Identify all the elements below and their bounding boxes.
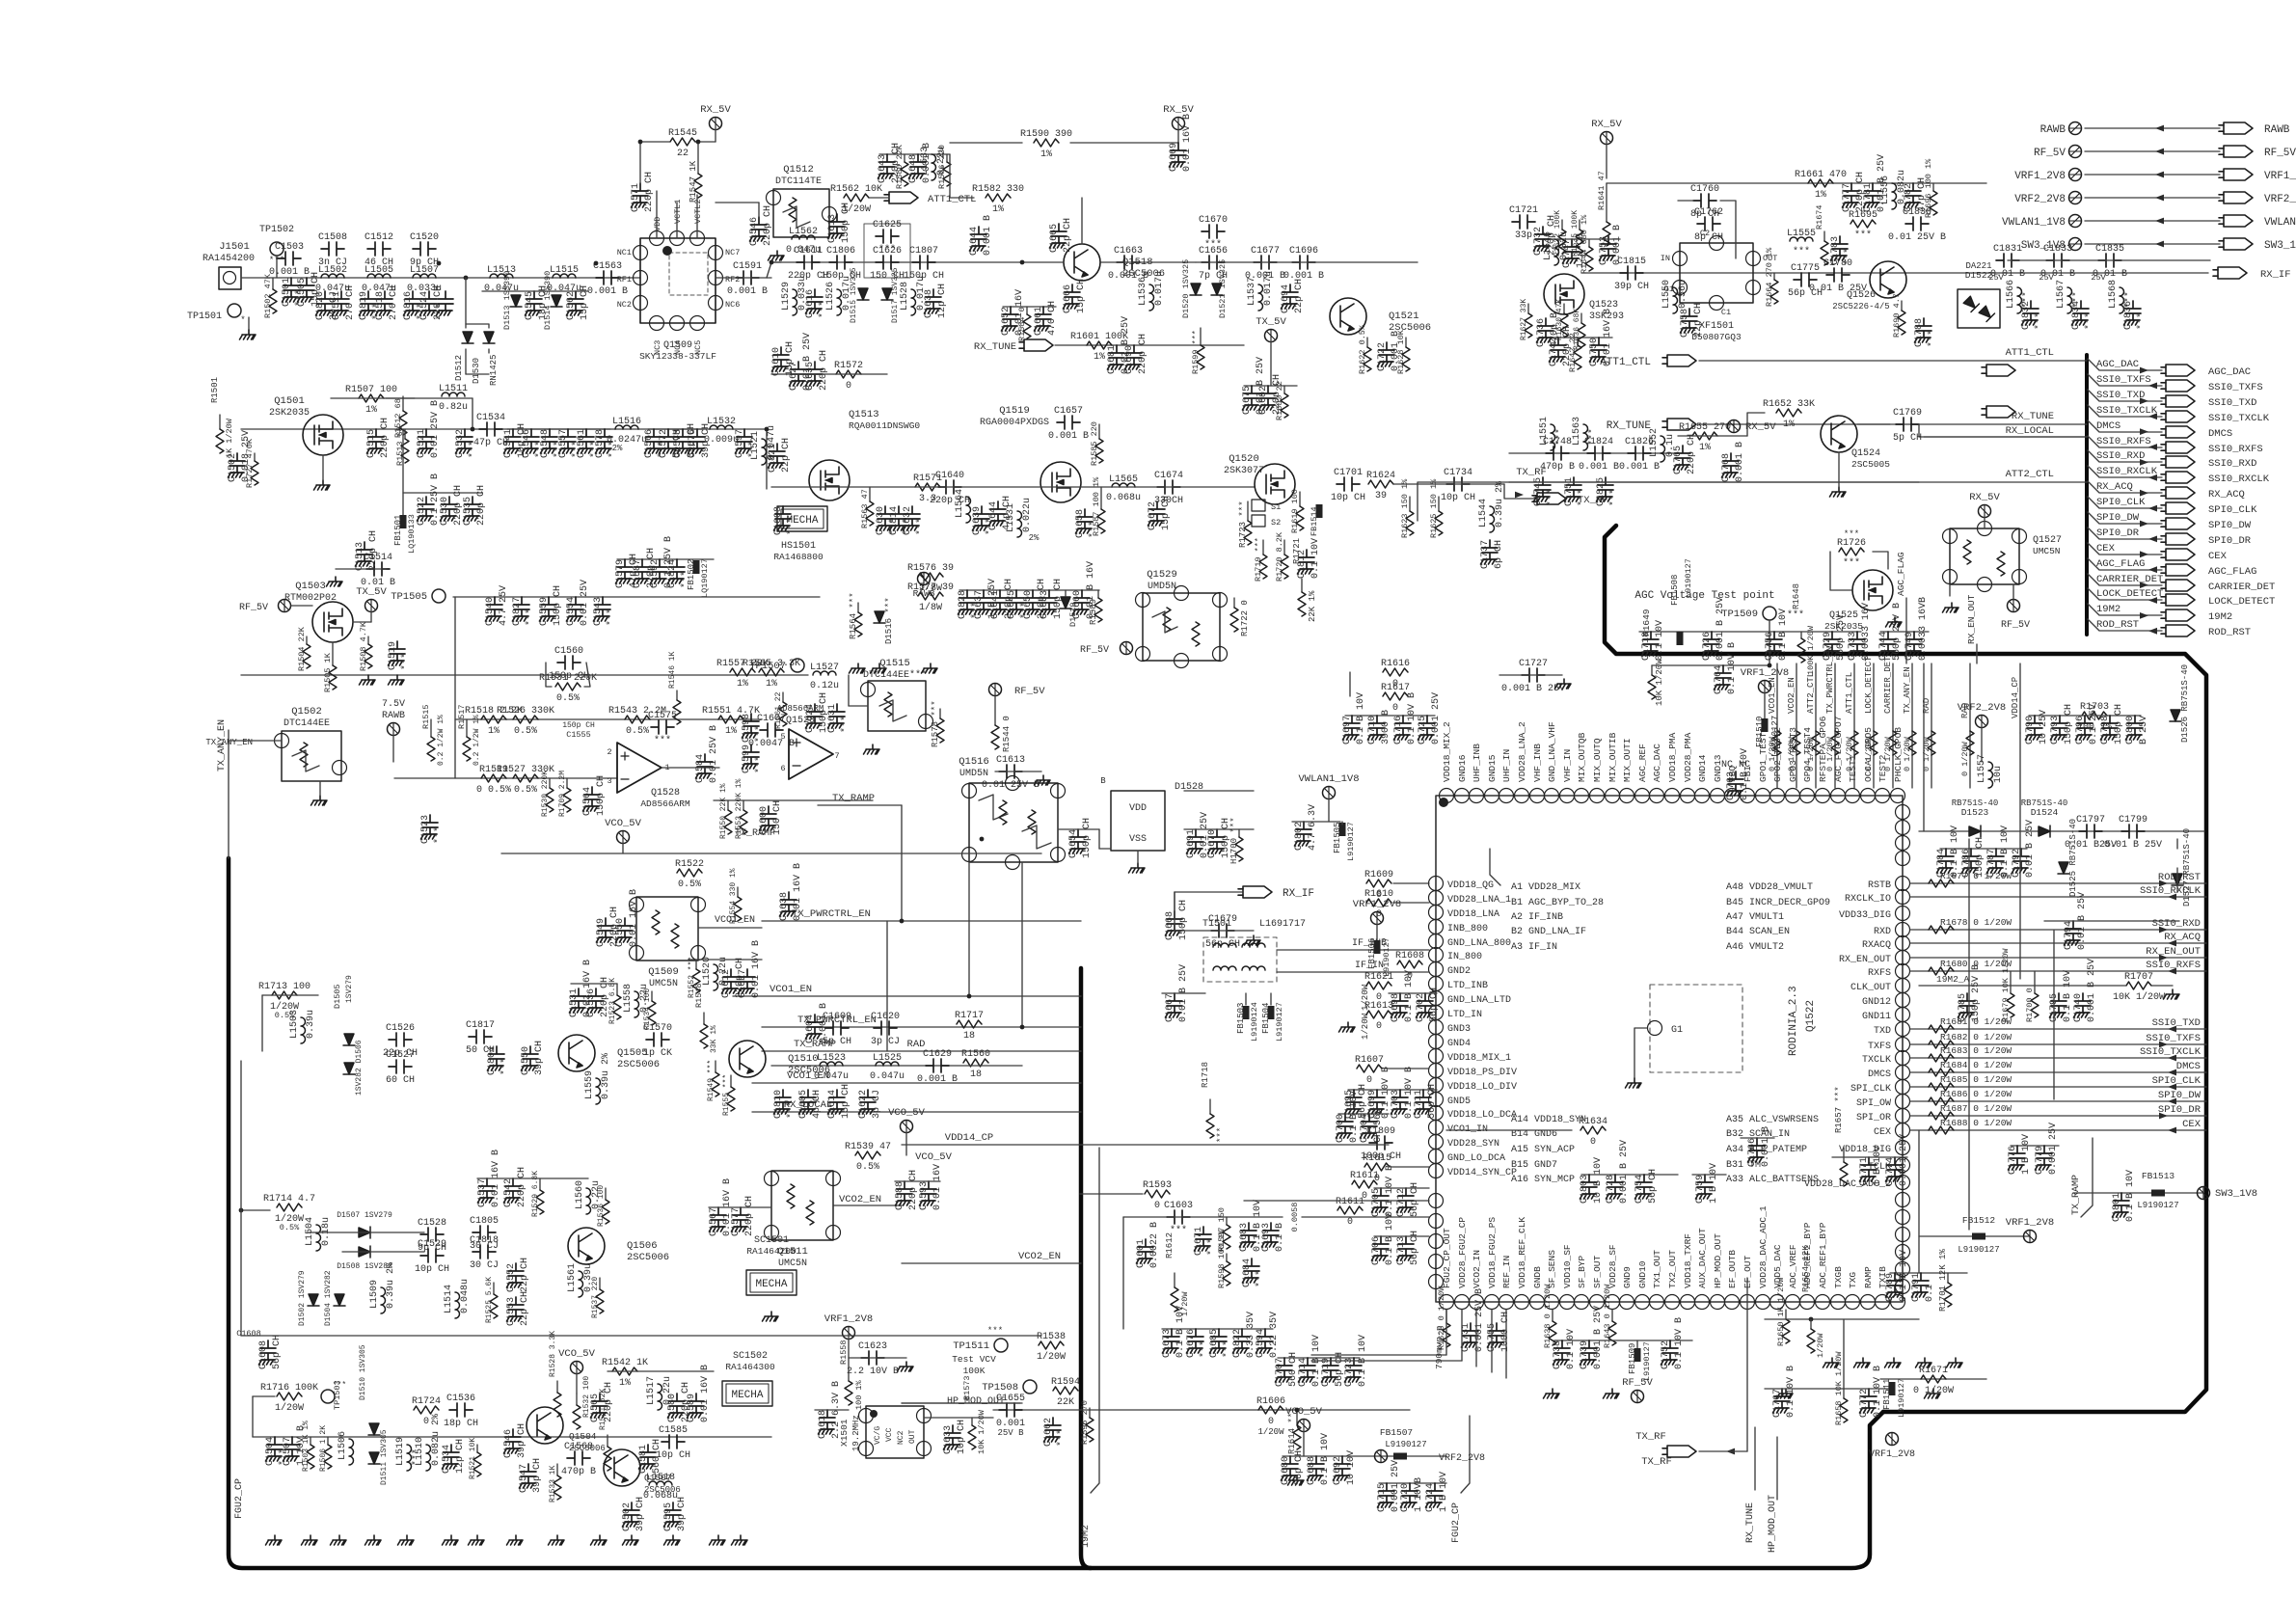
svg-text:C1536: C1536 (586, 988, 597, 1017)
caps L1528 C1638b (911, 289, 916, 315)
svg-text:R1630 47K: R1630 47K (1555, 299, 1564, 340)
resistors R1543 R1546 R1551 + C1598 (625, 716, 650, 723)
svg-text:GND16: GND16 (1457, 754, 1468, 782)
svg-text:22: 22 (677, 149, 689, 159)
svg-text:C1568: C1568 (564, 1442, 593, 1452)
svg-text:TP1509: TP1509 (1721, 609, 1758, 620)
resistor wire / net RX_ACQ (1910, 942, 2206, 944)
svg-text:R1596 270: R1596 270 (1080, 1400, 1090, 1445)
svg-text:R1526 330K: R1526 330K (497, 706, 554, 717)
svg-text:DTC144EE: DTC144EE (284, 718, 330, 729)
svg-text:0.001 B: 0.001 B (269, 267, 310, 278)
svg-text:R1683 0 1/20W: R1683 0 1/20W (1940, 1045, 2012, 1056)
svg-text:C1744: C1744 (1878, 632, 1889, 661)
svg-text:R1506 1.2K: R1506 1.2K (319, 1425, 328, 1472)
svg-text:AGC_DAC: AGC_DAC (2096, 359, 2139, 370)
svg-text:C1802: C1802 (1294, 822, 1305, 851)
main RX wire y=288 (241, 277, 640, 279)
svg-text:56p CH: 56p CH (1427, 1084, 1438, 1119)
svg-text:L1520: L1520 (702, 957, 713, 986)
output LC chain C1833 L1567 C1834 (2046, 254, 2069, 267)
svg-text:C1713: C1713 (1396, 1236, 1407, 1265)
caps C1776 C1779 (2011, 1145, 2059, 1147)
svg-text:R1529 6.8K: R1529 6.8K (531, 1171, 540, 1217)
svg-text:R1555 ***: R1555 *** (722, 1074, 731, 1116)
caps C1624 C1631 (806, 704, 824, 728)
svg-text:L1536: L1536 (1138, 277, 1148, 306)
svg-text:D1505: D1505 (333, 984, 342, 1009)
svg-text:1/20W: 1/20W (1816, 1333, 1825, 1358)
resistors R1576 R1577 1/8W (918, 573, 943, 581)
svg-text:R1580 22K: R1580 22K (895, 144, 905, 189)
svg-text:SPI0_DR: SPI0_DR (2096, 528, 2140, 539)
svg-text:19M2: 19M2 (2208, 611, 2232, 623)
svg-text:0.068u: 0.068u (643, 1491, 678, 1502)
svg-text:VDD28_LNA_1: VDD28_LNA_1 (1447, 895, 1511, 906)
svg-text:C1503: C1503 (275, 242, 304, 253)
main RX_IF wire y=283 (1581, 272, 2208, 274)
caps C1502b C1595 (623, 1502, 640, 1527)
svg-text:C1666: C1666 (1063, 284, 1073, 313)
svg-text:790mvp-p: 790mvp-p (1434, 1325, 1445, 1369)
svg-text:R1722 0: R1722 0 (1240, 600, 1250, 636)
svg-text:L1525: L1525 (873, 1053, 902, 1064)
svg-text:150p CH: 150p CH (1082, 818, 1093, 858)
svg-text:***: *** (1793, 246, 1810, 257)
svg-text:0 1/20W: 0 1/20W (1825, 736, 1835, 771)
svg-text:TXGB: TXGB (1833, 1266, 1844, 1288)
svg-text:VDD28_FGU2_CP: VDD28_FGU2_CP (1457, 1217, 1468, 1288)
resistor R1634 0 (1580, 1126, 1606, 1134)
svg-text:L1552: L1552 (1649, 428, 1660, 457)
svg-text:7p CH: 7p CH (1199, 271, 1228, 282)
svg-text:0.1 B 10V: 0.1 B 10V (2000, 826, 2011, 878)
svg-text:RF_5V: RF_5V (239, 603, 268, 613)
svg-text:C1528: C1528 (418, 1218, 446, 1229)
svg-text:A48 VDD28_VMULT: A48 VDD28_VMULT (1726, 882, 1813, 893)
caps C1528 C1529 (420, 1228, 444, 1241)
svg-text:A15 SYN_ACP: A15 SYN_ACP (1511, 1145, 1575, 1155)
svg-text:C1681: C1681 (1107, 345, 1118, 374)
svg-text:C1737: C1737 (1480, 540, 1491, 569)
svg-text:MIX_OUTQ: MIX_OUTQ (1592, 738, 1603, 782)
svg-text:C1794: C1794 (2064, 921, 2074, 950)
svg-text:L1510: L1510 (415, 1437, 425, 1466)
svg-text:C1608: C1608 (773, 506, 784, 535)
caps C1745 C1751 C1825 row (1534, 477, 1552, 501)
svg-text:C1740: C1740 (2073, 993, 2084, 1022)
resistor R1523 6.8K + L1558 R1534 (616, 984, 618, 995)
svg-text:Q1524: Q1524 (1851, 448, 1880, 459)
svg-text:C1623: C1623 (858, 1341, 887, 1352)
svg-text:C1822: C1822 (1232, 1329, 1243, 1358)
svg-text:0.1 B: 0.1 B (1275, 1223, 1285, 1252)
svg-text:VHF_IN: VHF_IN (1562, 749, 1573, 782)
svg-text:C1685: C1685 (1209, 1329, 1220, 1358)
svg-text:R1584 0: R1584 0 (1017, 307, 1027, 341)
svg-text:R1707: R1707 (2124, 972, 2153, 983)
power RX_5V + R1545 (710, 118, 722, 130)
svg-text:D1530: D1530 (472, 358, 481, 384)
svg-text:C1502: C1502 (622, 1502, 633, 1531)
caps C1611 C1806 (797, 256, 820, 269)
svg-text:0.047u: 0.047u (484, 284, 519, 294)
cap C1766 0.001 B (1748, 1138, 1766, 1162)
svg-text:C1633: C1633 (943, 1425, 954, 1454)
svg-text:L1503: L1503 (289, 1010, 300, 1039)
svg-text:R1536 100: R1536 100 (597, 1185, 606, 1227)
svg-text:R1714 4.7: R1714 4.7 (263, 1194, 315, 1204)
junction dots main chains (437, 261, 442, 266)
svg-text:39: 39 (1375, 491, 1387, 501)
svg-text:0.56u: 0.56u (1678, 280, 1688, 309)
svg-text:0.048u: 0.048u (460, 1279, 471, 1313)
svg-text:0.1 10V B: 0.1 10V B (1407, 692, 1418, 744)
svg-text:R1611: R1611 (1336, 1197, 1364, 1207)
svg-text:VDD18_MIX_2: VDD18_MIX_2 (1442, 721, 1452, 782)
svg-text:C1692: C1692 (1333, 1456, 1343, 1485)
svg-text:L1544: L1544 (1478, 499, 1489, 528)
svg-text:SSI0_TXFS: SSI0_TXFS (2208, 382, 2263, 393)
resistor R1686 / net SPI0_DW (1910, 1100, 2206, 1102)
cap C1532 *** + C1534 47p CH (456, 429, 473, 453)
svg-text:C1753: C1753 (1599, 236, 1609, 265)
svg-text:0.01 16V B: 0.01 16V B (1603, 309, 1613, 366)
svg-text:150p CH: 150p CH (2114, 704, 2124, 744)
svg-text:R1576 39: R1576 39 (907, 563, 954, 574)
svg-text:ATT1_CTL: ATT1_CTL (1845, 672, 1854, 714)
svg-text:VRF1_2V8: VRF1_2V8 (824, 1313, 873, 1325)
svg-text:R1585 220: R1585 220 (1090, 421, 1099, 466)
svg-text:22K 1%: 22K 1% (1308, 590, 1317, 622)
svg-text:D1516 ***: D1516 *** (884, 597, 894, 644)
svg-text:1/20W: 1/20W (275, 1402, 304, 1414)
diodes D1507 D1508 (359, 1227, 370, 1238)
svg-text:R1650 1K 1/20W: R1650 1K 1/20W (1776, 1277, 1786, 1346)
resistors R1515 R1517 0.2 1/2W (430, 719, 432, 737)
ferrite FB1512 + power VRF1_2V8 (1919, 1235, 2030, 1237)
svg-text:0.2 1/2W 1%: 0.2 1/2W 1% (473, 715, 481, 766)
resistor R1716 100K + TP1503 (277, 1393, 302, 1400)
svg-text:MIX_OUTQB: MIX_OUTQB (1577, 732, 1587, 782)
svg-text:0 1/20W: 0 1/20W (1845, 736, 1854, 771)
svg-text:VRF2_2V8: VRF2_2V8 (1958, 702, 2006, 714)
svg-text:Test VCV: Test VCV (952, 1354, 996, 1365)
svg-text:L9190127: L9190127 (2137, 1201, 2178, 1210)
svg-text:2SC5006: 2SC5006 (788, 1065, 830, 1076)
svg-text:L1519: L1519 (395, 1437, 406, 1466)
cap C1604 + C1609/C1620 small caps (806, 1015, 824, 1039)
power VWLAN1_1V8 (1323, 787, 1336, 799)
svg-text:RAWB: RAWB (2264, 124, 2290, 136)
svg-text:CARRIER_DET: CARRIER_DET (2096, 574, 2163, 585)
svg-text:C1576: C1576 (688, 429, 698, 458)
svg-text:150p CH: 150p CH (2064, 704, 2074, 744)
svg-text:R1634: R1634 (1579, 1117, 1607, 1127)
svg-text:R1632 100K: R1632 100K (1553, 210, 1562, 257)
svg-text:***: *** (2084, 312, 2095, 330)
svg-text:0 1/20W: 0 1/20W (1864, 736, 1874, 771)
output LC chain C1835 L1568 C1836 (2098, 254, 2121, 267)
svg-text:VRF1_2V8: VRF1_2V8 (1869, 1449, 1915, 1460)
svg-text:L1558: L1558 (623, 984, 634, 1013)
svg-text:0.5%: 0.5% (514, 726, 537, 737)
caps C1531 C1536 (570, 988, 587, 1013)
caps C1644 C1665 (970, 227, 987, 251)
svg-text:Q1501: Q1501 (274, 395, 305, 407)
resistors R1622 C1722 R1628 (1366, 338, 1368, 347)
svg-text:R1539 47: R1539 47 (845, 1142, 891, 1152)
FET Q1513 + MECHA (809, 460, 850, 501)
svg-text:RF_5V: RF_5V (2264, 148, 2296, 159)
svg-text:C1688: C1688 (1307, 1456, 1317, 1485)
svg-text:L1533: L1533 (920, 147, 931, 176)
caps C1673 C1676 C1685 C1822 C1594 comb (1162, 1328, 1273, 1330)
svg-text:33p: 33p (1515, 230, 1532, 241)
caps C1610 C1627 C1635 row + R1572 (772, 347, 790, 371)
svg-text:TX_RAMP: TX_RAMP (2071, 1175, 2082, 1215)
svg-text:L1526: L1526 (825, 282, 836, 311)
svg-text:10K 1/20W: 10K 1/20W (1655, 659, 1664, 706)
svg-text:R1635 100K: R1635 100K (1571, 210, 1580, 257)
caps C1697 C1710 C1716 C1725 row (1345, 715, 1435, 717)
capacitor C1801 0.1 B 10V (2113, 1193, 2130, 1217)
IC exposed pad G1 (dashed) (1650, 985, 1742, 1072)
svg-text:0: 0 (1154, 1201, 1160, 1211)
svg-text:J1501: J1501 (219, 241, 250, 253)
caps C1742 R1642 C1750 (1551, 337, 1612, 338)
net ATT2_CTL wire (1509, 481, 2087, 483)
svg-text:12p CH: 12p CH (937, 284, 948, 318)
svg-text:0.01 16V B: 0.01 16V B (751, 940, 762, 998)
svg-text:***: *** (1844, 529, 1859, 539)
svg-text:SPI_CLK: SPI_CLK (1850, 1084, 1891, 1095)
IC top pin row (1440, 789, 1454, 803)
svg-text:TXD: TXD (1874, 1026, 1891, 1037)
svg-text:MECHA: MECHA (755, 1279, 787, 1290)
svg-text:220p CH: 220p CH (644, 172, 655, 212)
svg-text:2: 2 (607, 747, 611, 757)
svg-text:10u: 10u (1993, 766, 2004, 783)
resistor R1682 / net SSI0_TXFS (1910, 1043, 2206, 1045)
svg-text:0.001 B 25V: 0.001 B 25V (1593, 1306, 1604, 1369)
svg-text:C1769: C1769 (1893, 408, 1922, 419)
svg-text:D1507 1SV279: D1507 1SV279 (337, 1211, 392, 1220)
bottom-left IC pin bundle wires (1445, 1310, 1447, 1355)
svg-text:C1614: C1614 (827, 1090, 838, 1119)
svg-text:C1714: C1714 (1298, 1358, 1309, 1387)
capacitor C1764 0.1 10V B (1715, 665, 1732, 690)
svg-text:C1630: C1630 (876, 506, 886, 535)
inductor L1515 0.047u (553, 274, 576, 278)
capacitor C1809 100p CH (1369, 1136, 1392, 1150)
svg-text:C1791: C1791 (1911, 1273, 1922, 1302)
svg-text:RX_TUNE: RX_TUNE (2012, 411, 2054, 422)
svg-text:SSI0_RXD: SSI0_RXD (2152, 918, 2201, 930)
svg-text:C1546: C1546 (503, 1429, 514, 1458)
svg-text:0: 0 (1376, 1021, 1382, 1032)
svg-text:SSI0_RXCLK: SSI0_RXCLK (2208, 474, 2270, 485)
svg-text:0.1 B 10V: 0.1 B 10V (1950, 826, 1960, 878)
svg-text:R1617: R1617 (1381, 683, 1410, 693)
svg-text:CARRIER_DET: CARRIER_DET (1883, 656, 1893, 714)
svg-text:C1834: C1834 (2071, 301, 2082, 330)
svg-text:C1580: C1580 (667, 1394, 678, 1422)
block Q1527 UMC5N (1950, 528, 2019, 584)
svg-text:RB751S-40: RB751S-40 (2021, 798, 2068, 808)
svg-text:B2 GND_LNA_IF: B2 GND_LNA_IF (1511, 927, 1586, 937)
svg-text:S2: S2 (1271, 518, 1281, 528)
svg-text:TX2_OUT: TX2_OUT (1667, 1250, 1678, 1288)
resistor R1547 1K 1% (697, 142, 699, 174)
net label VDD14_CP (2019, 663, 2021, 733)
svg-text:C1650: C1650 (1023, 590, 1034, 619)
cap C1701 10p CH + R1624 39 (1337, 477, 1360, 491)
connector RX_IF right edge (2213, 267, 2247, 279)
svg-text:C1552: C1552 (506, 1263, 517, 1292)
power stub VRF2_2V8 (2069, 192, 2082, 204)
svg-text:TP1505: TP1505 (391, 591, 427, 603)
svg-text:0 1/20W: 0 1/20W (1883, 736, 1893, 771)
svg-text:VWLAN1_1V8: VWLAN1_1V8 (2002, 217, 2066, 229)
svg-text:TP1508: TP1508 (982, 1382, 1018, 1394)
svg-text:RXACQ: RXACQ (1862, 940, 1891, 951)
svg-text:RX_EN_OUT: RX_EN_OUT (1966, 594, 1977, 644)
power RAWB small (918, 573, 931, 585)
svg-text:1%: 1% (1699, 443, 1711, 453)
svg-text:L1523: L1523 (817, 1053, 846, 1064)
svg-text:1%: 1% (766, 679, 777, 690)
svg-text:C1578: C1578 (595, 429, 606, 458)
svg-text:VDD28_PMA: VDD28_PMA (1683, 732, 1693, 782)
svg-text:R1628 10K: R1628 10K (1396, 329, 1406, 374)
svg-text:C1618: C1618 (818, 1410, 828, 1439)
RX_TUNE connector + R1601 (1019, 339, 1053, 351)
grounds tile E top (850, 663, 866, 673)
svg-text:VWLAN1_1V8: VWLAN1_1V8 (1298, 773, 1359, 785)
svg-text:0.01 16V: 0.01 16V (932, 1164, 943, 1210)
diode D1525 RB751S-40 (2058, 862, 2069, 874)
svg-text:R1679 10K 1/20W: R1679 10K 1/20W (2001, 948, 2011, 1022)
svg-text:R1623 150 1%: R1623 150 1% (1400, 478, 1410, 538)
svg-text:C1793: C1793 (2050, 716, 2061, 744)
svg-text:VCO2_EN: VCO2_EN (1018, 1251, 1061, 1262)
svg-text:R1622 0.5%: R1622 0.5% (1358, 324, 1367, 374)
svg-text:VDD14_CP: VDD14_CP (2011, 677, 2020, 718)
svg-text:39p CH: 39p CH (635, 1497, 646, 1531)
resistor R1582 330 1% (986, 194, 1011, 202)
svg-text:C1593: C1593 (919, 1181, 930, 1210)
resistor R1562 10K + connector ATT1_CTL (844, 194, 869, 202)
svg-text:C1738: C1738 (1553, 1340, 1563, 1369)
svg-text:C1836: C1836 (2123, 301, 2134, 330)
svg-text:IN: IN (1661, 254, 1670, 263)
svg-text:VRF2_2V8: VRF2_2V8 (1439, 1453, 1485, 1464)
svg-text:***: *** (400, 653, 412, 670)
main chain wire tile B (771, 261, 1022, 263)
svg-text:SF_SENS: SF_SENS (1547, 1250, 1557, 1288)
svg-text:VDD18_TXRF: VDD18_TXRF (1683, 1233, 1693, 1288)
svg-text:RF_5V: RF_5V (1014, 686, 1045, 697)
svg-text:Q1509: Q1509 (648, 966, 679, 978)
svg-text:R1560: R1560 (961, 1049, 990, 1060)
upper cluster C1643..R1586 (879, 153, 950, 155)
resistor R1507 100 1% (359, 394, 384, 402)
svg-text:C1534: C1534 (476, 413, 505, 423)
svg-text:C1733: C1733 (1848, 632, 1858, 661)
wire second chain tile B (771, 486, 1041, 488)
svg-text:R1606: R1606 (1256, 1396, 1285, 1407)
svg-text:L1504: L1504 (305, 1217, 315, 1246)
svg-text:0.001 25V: 0.001 25V (2048, 1123, 2059, 1175)
svg-text:C1571: C1571 (631, 183, 641, 212)
cap C1560 150p CH + R1531 220K (557, 656, 581, 669)
svg-text:2SC5226-4/5: 2SC5226-4/5 (1832, 302, 1889, 311)
svg-text:R1594: R1594 (1051, 1377, 1080, 1388)
svg-text:Q1513: Q1513 (849, 409, 879, 420)
svg-text:56p CH: 56p CH (1648, 1169, 1659, 1204)
svg-text:L1556: L1556 (1880, 176, 1891, 204)
svg-text:0.18u: 0.18u (321, 1217, 332, 1246)
svg-text:SSI0_TXD: SSI0_TXD (2096, 390, 2145, 401)
svg-text:R1546 1K: R1546 1K (668, 651, 677, 689)
transistor Q1506 2SC5006 (568, 1228, 605, 1264)
resistor R1578 *** (939, 709, 941, 718)
svg-text:LQ190133: LQ190133 (407, 514, 417, 554)
svg-text:330CH: 330CH (1154, 496, 1183, 506)
svg-text:1%: 1% (1815, 190, 1826, 201)
svg-text:C1505: C1505 (297, 278, 308, 307)
FET Q1523 3SK293 (1544, 274, 1584, 314)
svg-text:R1724: R1724 (412, 1396, 441, 1407)
svg-text:C1759: C1759 (1695, 1175, 1706, 1204)
svg-text:A33 ALC_BATTSENS: A33 ALC_BATTSENS (1726, 1175, 1819, 1185)
cluster C1777 C1781 L1556 C1782 R1696 (1843, 183, 1860, 207)
svg-text:D1511 1SV305: D1511 1SV305 (380, 1429, 389, 1485)
IC D1528 VDD/VSS (1111, 791, 1165, 851)
bus-side stub connector ATT1_CTL (1982, 365, 2015, 376)
svg-text:4.7 6.3V: 4.7 6.3V (1308, 804, 1318, 851)
resistor R1681 / net SSI0_TXD (1910, 1028, 2206, 1030)
cap C1815 39p CH (1620, 266, 1643, 280)
svg-text:L1532: L1532 (707, 417, 736, 427)
svg-text:0.01 B 25V: 0.01 B 25V (2104, 840, 2162, 851)
svg-text:C1833: C1833 (2043, 244, 2072, 255)
op-amp Q1528 second half (789, 729, 833, 779)
resistor R1678 / net SSI0_RXD (1910, 929, 2206, 931)
svg-text:D1520 1SV325: D1520 1SV325 (1181, 259, 1191, 318)
svg-text:UMC5N: UMC5N (649, 979, 678, 989)
diode pack D1522 DA221 (1958, 289, 2000, 328)
svg-text:C1702: C1702 (1416, 993, 1426, 1022)
svg-text:C1638: C1638 (924, 289, 934, 318)
power RF_5V left (279, 600, 291, 612)
svg-text:R1544 0: R1544 0 (1002, 716, 1012, 752)
svg-text:C1537: C1537 (477, 1178, 488, 1207)
svg-text:VDD28_SF: VDD28_SF (1607, 1244, 1618, 1288)
svg-text:C1617: C1617 (738, 969, 748, 998)
svg-text:TP1502: TP1502 (259, 225, 294, 235)
caps C1695 C1699 C1703 C1711 row (1348, 1089, 1437, 1091)
svg-text:RF_5V: RF_5V (2034, 148, 2066, 159)
svg-text:C1640: C1640 (935, 471, 964, 481)
resistor R1671 0 1/20W (1880, 1378, 1986, 1380)
svg-text:A3 IF_IN: A3 IF_IN (1511, 942, 1557, 953)
svg-text:R1582 330: R1582 330 (972, 184, 1024, 195)
svg-text:R1615: R1615 (1363, 1153, 1391, 1164)
svg-text:R1727 470K: R1727 470K (245, 438, 255, 488)
svg-text:***: *** (1854, 230, 1872, 241)
